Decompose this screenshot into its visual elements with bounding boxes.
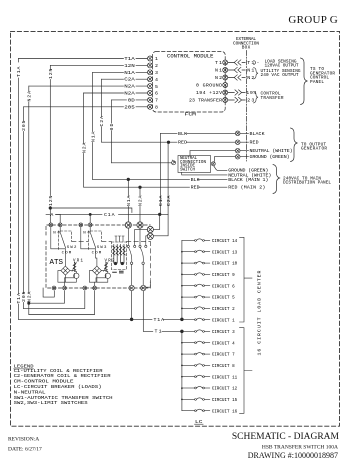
legend underline bbox=[14, 368, 34, 370]
svg-text:BLK: BLK bbox=[178, 131, 187, 137]
svg-text:3: 3 bbox=[155, 70, 158, 76]
C1 rectifier diamond bbox=[61, 266, 70, 275]
wire T1A long run bbox=[19, 318, 182, 320]
svg-text:N1: N1 bbox=[215, 68, 222, 74]
wire N1A vertical bbox=[92, 72, 94, 179]
svg-text:C2-GENERATOR COIL & RECTIFIER: C2-GENERATOR COIL & RECTIFIER bbox=[14, 373, 111, 379]
svg-text:CIRCUIT 9: CIRCUIT 9 bbox=[212, 272, 235, 278]
connector chevrons left (receptacle) bbox=[234, 60, 241, 65]
svg-text:NO: NO bbox=[83, 232, 90, 236]
wire 205 bus bbox=[23, 107, 25, 309]
svg-text:CIRCUIT 7: CIRCUIT 7 bbox=[212, 352, 235, 358]
svg-text:205: 205 bbox=[21, 120, 27, 131]
circuit breaker CB2 bbox=[182, 307, 210, 309]
terminal strip dashed box bbox=[111, 242, 126, 270]
left terminal of neutral box bbox=[172, 161, 176, 165]
terminal w3 bbox=[83, 286, 87, 290]
coil block C2 bbox=[89, 262, 110, 282]
svg-text:N2A: N2A bbox=[27, 291, 33, 302]
SW2 coil lead bbox=[64, 249, 66, 266]
SW2 terminal a bbox=[49, 223, 53, 227]
junction C2A on RED row bbox=[167, 141, 170, 144]
vertical RED junction to C2A down bbox=[167, 142, 169, 214]
svg-text:CONTROL MODULE: CONTROL MODULE bbox=[167, 53, 214, 59]
svg-text:VR1: VR1 bbox=[73, 259, 84, 263]
strip element 2 bbox=[116, 245, 118, 264]
circuit breaker CB5 bbox=[182, 296, 210, 299]
genset pole terminal C2 bbox=[147, 233, 153, 239]
coil to terminal stubs bbox=[65, 282, 95, 286]
svg-text:205: 205 bbox=[124, 104, 135, 110]
wire N2 to connector bbox=[228, 77, 245, 79]
wire BLACK MAIN 1 bbox=[93, 178, 227, 180]
load terminal a bbox=[129, 285, 134, 290]
terminal 194 +12V bbox=[223, 90, 228, 95]
right terminal of neutral box bbox=[211, 162, 215, 166]
junction T1 bus bbox=[181, 330, 184, 333]
svg-text:CIRCUIT 4: CIRCUIT 4 bbox=[212, 340, 235, 346]
svg-text:LC-CIRCUIT BREAKER (LOADS): LC-CIRCUIT BREAKER (LOADS) bbox=[14, 384, 102, 390]
stubs to labels bbox=[240, 133, 249, 156]
svg-text:T1: T1 bbox=[247, 60, 254, 66]
svg-text:CIRCUIT 5: CIRCUIT 5 bbox=[212, 295, 235, 301]
vertical ground row to box right terminal bbox=[214, 157, 215, 162]
brace for 194 23 bbox=[254, 92, 259, 103]
svg-text:CIRCUIT 10: CIRCUIT 10 bbox=[212, 261, 238, 267]
svg-text:T1A: T1A bbox=[16, 66, 22, 77]
strip bottom marks bbox=[113, 271, 123, 273]
svg-text:NEUTRAL (WHITE): NEUTRAL (WHITE) bbox=[250, 148, 293, 154]
lower bus bbox=[181, 331, 183, 410]
bus junction dots bbox=[181, 251, 183, 400]
wire NEUTRAL (WHITE) panel bbox=[182, 173, 227, 175]
ATS dashed enclosure bbox=[46, 225, 150, 288]
svg-text:1: 1 bbox=[155, 56, 158, 62]
strip element 1 bbox=[113, 245, 115, 264]
terminal NEUTRAL bbox=[235, 148, 240, 153]
svg-text:240 VAC OUTPUT: 240 VAC OUTPUT bbox=[261, 73, 299, 78]
svg-text:NO: NO bbox=[53, 232, 60, 236]
moving contact leads down bbox=[132, 264, 144, 285]
svg-text:0D: 0D bbox=[109, 123, 115, 130]
wire switch load b down to T1 bbox=[143, 291, 182, 332]
SW3 com wire L bbox=[81, 227, 96, 249]
pin 3 wire N1A bbox=[93, 71, 148, 73]
brace 240VAC TO MAIN DISTRIBUTION PANEL bbox=[273, 165, 280, 194]
circuit breaker CB9 bbox=[182, 273, 210, 275]
SW2 no lead bbox=[59, 227, 61, 232]
svg-text:CIRCUIT 16: CIRCUIT 16 bbox=[212, 408, 238, 414]
genset pole terminal C1 bbox=[147, 226, 153, 232]
svg-text:CIRCUIT 11: CIRCUIT 11 bbox=[212, 374, 238, 380]
strip dots bbox=[114, 262, 117, 265]
wire C1A drop to pole bbox=[154, 214, 160, 229]
svg-text:BLACK (MAIN 1): BLACK (MAIN 1) bbox=[228, 177, 268, 183]
svg-text:23 TRANSFER: 23 TRANSFER bbox=[189, 98, 222, 104]
svg-text:C1A: C1A bbox=[158, 195, 164, 206]
fixed contacts bbox=[127, 245, 129, 247]
SW3 terminal a bbox=[79, 223, 83, 227]
circuit breaker CB3 bbox=[182, 330, 210, 332]
circuit breaker CB16 bbox=[182, 409, 210, 411]
right pins of control module bbox=[223, 60, 246, 103]
svg-text:RED: RED bbox=[191, 185, 200, 191]
svg-text:N2A: N2A bbox=[81, 142, 87, 153]
wire T1 to connector bbox=[228, 62, 245, 64]
terminal 0 GROUND bbox=[223, 83, 228, 88]
svg-text:CIRCUIT 3: CIRCUIT 3 bbox=[212, 329, 235, 335]
svg-text:16 CIRCUIT LOAD CENTER: 16 CIRCUIT LOAD CENTER bbox=[256, 270, 262, 355]
svg-text:PANEL: PANEL bbox=[310, 80, 324, 85]
wire GROUND generator bbox=[215, 156, 236, 158]
junction N1A on MAIN1 bbox=[127, 178, 130, 181]
svg-text:C1A: C1A bbox=[104, 212, 115, 218]
svg-text:T1A: T1A bbox=[124, 56, 135, 62]
SW2 terminal b bbox=[58, 223, 62, 227]
wire N1 to connector bbox=[228, 69, 245, 71]
brace TO OUTPUT GENERATOR bbox=[291, 128, 298, 162]
varistor VR2 bbox=[105, 262, 108, 271]
C2 coil bbox=[105, 273, 110, 278]
wire C2A drop to pole bbox=[154, 214, 168, 235]
neutral connection inside switch box bbox=[178, 156, 211, 173]
svg-text:0 GROUND: 0 GROUND bbox=[196, 83, 222, 89]
wire N2A bus bbox=[28, 86, 30, 314]
svg-text:RED (MAIN 2): RED (MAIN 2) bbox=[228, 185, 265, 191]
circuit breaker CB14 bbox=[182, 239, 210, 241]
svg-text:GENERATOR: GENERATOR bbox=[301, 147, 327, 152]
svg-text:CIRCUIT 15: CIRCUIT 15 bbox=[212, 397, 238, 403]
utility pole terminal N1 bbox=[125, 222, 131, 228]
wire C1A line bbox=[46, 213, 168, 215]
svg-text:N2A: N2A bbox=[27, 91, 33, 102]
junction C1A bbox=[158, 213, 161, 216]
moving arm 1 bbox=[129, 248, 132, 262]
wire RED generator bbox=[102, 141, 236, 143]
junction N2A on MAIN2 bbox=[139, 186, 142, 189]
wire 194 to connector bbox=[228, 92, 245, 94]
svg-text:T1: T1 bbox=[155, 329, 162, 335]
small brace T1 bbox=[254, 61, 256, 65]
wire NEUTRAL generator bbox=[190, 150, 235, 152]
svg-text:N1: N1 bbox=[247, 68, 254, 74]
svg-text:SW2: SW2 bbox=[67, 246, 77, 250]
wire BLACK generator bbox=[161, 132, 236, 134]
svg-text:TRANSFER: TRANSFER bbox=[261, 96, 284, 101]
svg-text:N2A: N2A bbox=[124, 91, 135, 97]
wire C2A vertical bbox=[101, 79, 103, 142]
wire N2A down to contact bbox=[139, 187, 141, 222]
junction N2A split bbox=[28, 302, 30, 304]
svg-text:-: - bbox=[257, 61, 260, 66]
mechanical linkage dashed bbox=[72, 241, 151, 287]
svg-text:SW3: SW3 bbox=[97, 246, 107, 250]
svg-text:N2: N2 bbox=[247, 75, 254, 81]
svg-text:CIRCUIT 2: CIRCUIT 2 bbox=[212, 306, 235, 312]
coil return jog bbox=[43, 288, 54, 297]
junction at SW3 terminal bbox=[89, 213, 91, 215]
circuit breaker CB10 bbox=[182, 262, 210, 264]
wire 23 to connector bbox=[228, 99, 245, 101]
ATS bottom terminals bbox=[52, 286, 96, 290]
svg-text:BLK: BLK bbox=[191, 177, 200, 183]
svg-text:2: 2 bbox=[155, 63, 158, 69]
annotation LOAD SENSING 120VAC OUTPUT bbox=[261, 59, 301, 101]
junction T1A switch bbox=[130, 318, 133, 321]
svg-text:A: A bbox=[50, 212, 53, 218]
load terminal b bbox=[141, 285, 146, 290]
svg-text:CIRCUIT 12: CIRCUIT 12 bbox=[212, 386, 238, 392]
vertical neutral row into box top bbox=[189, 151, 191, 156]
svg-text:COM: COM bbox=[62, 252, 72, 256]
terminal w2 bbox=[63, 286, 67, 290]
svg-text:12N: 12N bbox=[48, 195, 54, 206]
wire SW2 terminal up stub bbox=[59, 214, 61, 222]
svg-text:7: 7 bbox=[155, 98, 158, 104]
svg-text:GROUND (GREEN): GROUND (GREEN) bbox=[250, 154, 290, 160]
svg-text:CIRCUIT 13: CIRCUIT 13 bbox=[212, 249, 238, 255]
vertical BLACK to C1A bbox=[160, 133, 162, 214]
svg-text:C2A: C2A bbox=[124, 77, 135, 83]
C1 coil bbox=[74, 273, 79, 278]
SW2 com wire L bbox=[51, 227, 66, 249]
svg-text:CIRCUIT 14: CIRCUIT 14 bbox=[212, 238, 238, 244]
svg-text:RED: RED bbox=[250, 140, 259, 146]
utility pole terminal N2 bbox=[137, 222, 143, 228]
svg-text:HSB TRANSFER SWITCH 100A: HSB TRANSFER SWITCH 100A bbox=[262, 445, 338, 451]
left pins of control module bbox=[19, 56, 153, 109]
circuit breaker CB4 bbox=[182, 341, 210, 343]
junction 12N bbox=[49, 207, 52, 210]
circuit breaker CB8 bbox=[182, 364, 210, 366]
wire switch load a down bbox=[131, 291, 133, 320]
svg-text:GROUP G: GROUP G bbox=[288, 14, 338, 26]
wire 308 run bbox=[24, 291, 85, 309]
svg-text:DISTRIBUTION PANEL: DISTRIBUTION PANEL bbox=[283, 181, 331, 186]
border frame bbox=[11, 31, 340, 426]
svg-text:C1-UTILITY COIL & RECTIFIER: C1-UTILITY COIL & RECTIFIER bbox=[14, 368, 103, 374]
wire GROUND (GREEN) panel bbox=[214, 166, 227, 171]
moving arm 2 bbox=[140, 248, 143, 262]
svg-text:DATE: 6/27/17: DATE: 6/27/17 bbox=[8, 447, 42, 453]
svg-text:C2A: C2A bbox=[166, 195, 172, 206]
SW3 arm bbox=[90, 233, 95, 248]
svg-text:6: 6 bbox=[155, 91, 158, 97]
terminal RED bbox=[235, 140, 240, 145]
gen side contact stubs bbox=[135, 229, 148, 245]
C1 wiring bbox=[58, 262, 75, 282]
wire RED MAIN 2 bbox=[84, 186, 227, 188]
svg-text:COM: COM bbox=[92, 252, 102, 256]
wire N2A vertical (pin6) bbox=[83, 93, 85, 187]
svg-text:8: 8 bbox=[155, 105, 158, 111]
strip top stubs bbox=[115, 236, 124, 242]
wire C1A vertical into switch bbox=[160, 196, 162, 212]
pin 4 wire C2A bbox=[102, 78, 148, 80]
circuit breaker CB12 bbox=[182, 386, 210, 388]
wire SW3 terminal up stub bbox=[89, 214, 91, 222]
brace for N1 N2 bbox=[254, 58, 308, 105]
svg-text:CIRCUIT 8: CIRCUIT 8 bbox=[212, 363, 235, 369]
bracket group 1 bbox=[240, 237, 253, 322]
svg-text:BOX: BOX bbox=[242, 46, 251, 51]
svg-text:N2: N2 bbox=[215, 75, 222, 81]
pin 5 wire N2A bbox=[29, 85, 148, 87]
terminal w4 bbox=[93, 286, 97, 290]
circuit breaker CB11 bbox=[182, 375, 210, 377]
svg-text:T1: T1 bbox=[215, 60, 222, 66]
svg-text:205: 205 bbox=[21, 291, 27, 302]
strip element 4 bbox=[123, 245, 125, 264]
svg-text:12N: 12N bbox=[124, 63, 135, 69]
wire T1A bus bbox=[18, 59, 20, 320]
svg-text:LC: LC bbox=[195, 419, 203, 425]
svg-text:REVISION:A: REVISION:A bbox=[8, 437, 39, 443]
limit switch SW3 bbox=[79, 223, 102, 266]
svg-text:DRAWING #:10000018987: DRAWING #:10000018987 bbox=[248, 451, 338, 460]
svg-text:0D: 0D bbox=[128, 97, 135, 103]
svg-text:4: 4 bbox=[155, 77, 158, 83]
upper bus bbox=[181, 240, 183, 319]
connector chevrons right (plug) bbox=[235, 90, 242, 95]
svg-text:194: 194 bbox=[246, 90, 256, 96]
junction T1A bus bbox=[181, 318, 184, 321]
svg-text:N-NEUTRAL: N-NEUTRAL bbox=[14, 389, 46, 395]
circuit breaker CB6 bbox=[182, 284, 210, 286]
svg-text:ATS: ATS bbox=[50, 259, 64, 267]
svg-text:RED: RED bbox=[178, 140, 187, 146]
external side wire labels bbox=[246, 60, 259, 104]
pin terminals column bbox=[148, 56, 153, 109]
svg-text:CM-CONTROL MODULE: CM-CONTROL MODULE bbox=[14, 379, 74, 385]
svg-text:194 +12V: 194 +12V bbox=[196, 90, 222, 96]
SW3 terminal b bbox=[88, 223, 92, 227]
wire N1A down to contact bbox=[127, 179, 129, 221]
circuit breaker CB15 bbox=[182, 398, 210, 400]
terminal N1 bbox=[223, 68, 228, 73]
svg-text:CIRCUIT 1: CIRCUIT 1 bbox=[212, 317, 235, 323]
SW3 coil lead bbox=[96, 249, 97, 266]
bracket group 2 bbox=[240, 328, 253, 414]
control module CM box bbox=[153, 52, 226, 113]
fixed contact stubs bbox=[128, 228, 140, 245]
svg-text:N1A: N1A bbox=[124, 70, 135, 76]
external box boundary dash-dot line bbox=[245, 51, 247, 162]
wire 0D into left terminal bbox=[112, 162, 172, 164]
LC underline bbox=[195, 423, 204, 425]
SW2 dashed outline bbox=[58, 231, 71, 250]
pin 6 wire N2A bbox=[84, 92, 148, 94]
SW2 arm bbox=[60, 233, 65, 248]
wire 314 run bbox=[29, 291, 95, 315]
terminal 23 TRANSFER bbox=[223, 98, 228, 103]
SW3 no lead bbox=[89, 227, 91, 232]
wire 12N horizontal bbox=[50, 208, 132, 213]
wire 0D vertical bbox=[111, 100, 113, 163]
terminal T1 bbox=[223, 60, 228, 65]
SW3 dashed outline bbox=[88, 231, 101, 250]
terminal N2 bbox=[223, 75, 228, 80]
svg-text:SW2,SW3-LIMIT SWITCHES: SW2,SW3-LIMIT SWITCHES bbox=[14, 400, 88, 406]
svg-text:FCM: FCM bbox=[185, 112, 197, 118]
circuit breaker CB1 bbox=[182, 318, 210, 320]
svg-text:N1A: N1A bbox=[90, 131, 96, 142]
svg-text:CIRCUIT 6: CIRCUIT 6 bbox=[212, 283, 235, 289]
svg-text:C2A: C2A bbox=[99, 116, 105, 127]
terminal GROUND bbox=[235, 154, 240, 159]
strip element 3 bbox=[119, 245, 121, 264]
limit switch SW2 bbox=[49, 223, 72, 266]
svg-text:12N: 12N bbox=[48, 68, 54, 79]
varistor VR1 bbox=[73, 262, 76, 271]
svg-text:SWITCH: SWITCH bbox=[180, 168, 195, 172]
terminal w1 bbox=[52, 286, 56, 290]
pin 7 wire 0D bbox=[112, 99, 148, 101]
pin 2 wire 12N bbox=[50, 64, 147, 66]
svg-text:SCHEMATIC - DIAGRAM: SCHEMATIC - DIAGRAM bbox=[232, 432, 340, 442]
svg-text:N1A: N1A bbox=[126, 195, 132, 206]
wire 12N vertical bbox=[49, 65, 51, 222]
svg-text:N2A: N2A bbox=[124, 84, 135, 90]
svg-text:5: 5 bbox=[155, 84, 158, 90]
coil block C1 bbox=[58, 262, 79, 282]
pin 1 wire T1A bbox=[19, 58, 148, 60]
wire 303 run bbox=[29, 291, 65, 303]
svg-text:T1A: T1A bbox=[154, 317, 165, 323]
C2 rectifier diamond bbox=[92, 266, 101, 275]
C2 wiring bbox=[89, 262, 106, 282]
pin 8 wire 205 bbox=[24, 106, 148, 108]
terminal BLACK bbox=[235, 131, 240, 136]
big brace TS TO GENERATOR CONTROL PANEL bbox=[301, 58, 308, 105]
circuit breaker CB7 bbox=[182, 353, 210, 355]
svg-text:N2A: N2A bbox=[138, 195, 144, 206]
circuit breaker CB13 bbox=[182, 250, 210, 252]
svg-text:BLACK: BLACK bbox=[250, 131, 265, 137]
